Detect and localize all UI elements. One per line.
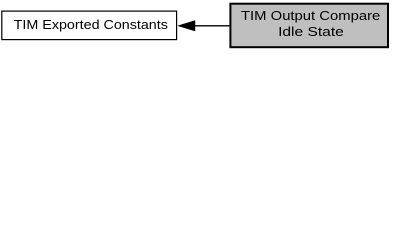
edge arrowhead pointing at left node bbox=[178, 21, 195, 31]
node label: TIM Exported Constants bbox=[14, 17, 169, 32]
svg-text:TIM Exported Constants: TIM Exported Constants bbox=[14, 17, 169, 32]
node label line 1: TIM Output Compare bbox=[241, 8, 380, 23]
svg-text:TIM Output Compare: TIM Output Compare bbox=[241, 8, 380, 23]
background bbox=[0, 0, 393, 51]
node box: TIM Output Compare Idle State (current node, grey fill) bbox=[230, 4, 388, 48]
node box: TIM Exported Constants bbox=[2, 11, 177, 39]
edge wire: from grey node to left node bbox=[195, 25, 230, 27]
node label line 2: Idle State bbox=[278, 24, 344, 39]
svg-text:Idle State: Idle State bbox=[278, 24, 344, 39]
